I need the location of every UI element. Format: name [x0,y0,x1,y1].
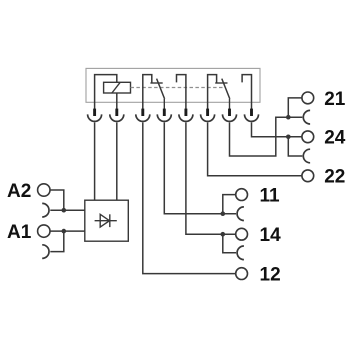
wire A1 hook to junction [50,231,64,252]
svg-text:21: 21 [324,89,346,110]
pin 6 [206,109,209,116]
wire junction down to 24 socket hook [288,137,302,156]
svg-text:24: 24 [324,128,346,149]
terminal 11 [236,189,248,201]
terminal 21 [302,92,314,104]
mechanical linkage (dashed) [131,87,224,89]
junction node A1 [62,229,67,234]
socket hook of 11 [237,207,244,221]
socket hook of 24 [303,149,310,163]
pin 2 [115,109,118,116]
wire pin6 to terminal 22 [208,122,302,175]
terminal 14 [236,228,248,240]
wire A1 to diode box [50,230,85,232]
socket hook of 14 [237,246,244,260]
pin 4 [163,109,166,116]
pin 5 [184,109,187,116]
terminal 22 [302,170,314,182]
pin 8 [250,109,253,116]
svg-text:14: 14 [260,225,282,246]
wire pin4 to terminal 11 junction [164,122,236,213]
contact 1 (11-12-14): movable lever (COM) [163,99,165,109]
terminal 12 [236,268,248,280]
wire pin3 to terminal 12 [143,122,236,273]
wire coil to pin 2 [116,93,118,109]
junction node at 14 [221,232,226,237]
svg-text:A2: A2 [7,181,31,202]
wire pin8 to terminal 24 [252,122,302,136]
wire pin7 to terminal 21 [230,117,303,156]
wire junction up to terminal 11 circle [223,195,236,214]
socket hook of A2 [42,203,49,217]
socket hook of 21 [303,110,310,124]
contact 1 (11-12-14): NO fixed contact [177,75,186,109]
terminal A1 [38,225,50,237]
wire pin1 to diode box [94,122,96,200]
wire junction up to terminal 21 circle [288,98,302,117]
wire junction down to 14 socket hook [223,234,236,253]
relay coil K1 [95,75,117,109]
terminal A2 [38,184,50,196]
contact 2 (21-22-24): movable lever (COM) [229,99,231,109]
junction node A2 [62,208,67,213]
socket hook of A1 [42,245,49,259]
svg-text:22: 22 [324,167,345,188]
contact 1 (11-12-14): NC fixed contact [143,75,152,109]
pin 7 [228,109,231,116]
junction node at 21 [286,115,291,120]
wire A2 to junction [50,190,64,210]
relay outline box [86,68,260,102]
pin 1 [93,109,96,116]
wire A2 hook to diode box [50,209,85,211]
pin 3 [141,109,144,116]
svg-text:12: 12 [260,265,281,286]
wire pin5 to terminal 14 [186,122,236,234]
wire pin2 to diode box [116,122,118,200]
terminal 24 [302,131,314,143]
junction node at 24 [286,135,291,140]
contact 2 (21-22-24): NO fixed contact [242,75,251,109]
svg-text:11: 11 [260,186,281,207]
input protection module box [85,200,129,241]
svg-text:A1: A1 [7,222,32,243]
contact 2 (21-22-24): NC fixed contact [208,75,217,109]
protection diode V1 [95,220,117,222]
junction node at 11 [221,211,226,216]
